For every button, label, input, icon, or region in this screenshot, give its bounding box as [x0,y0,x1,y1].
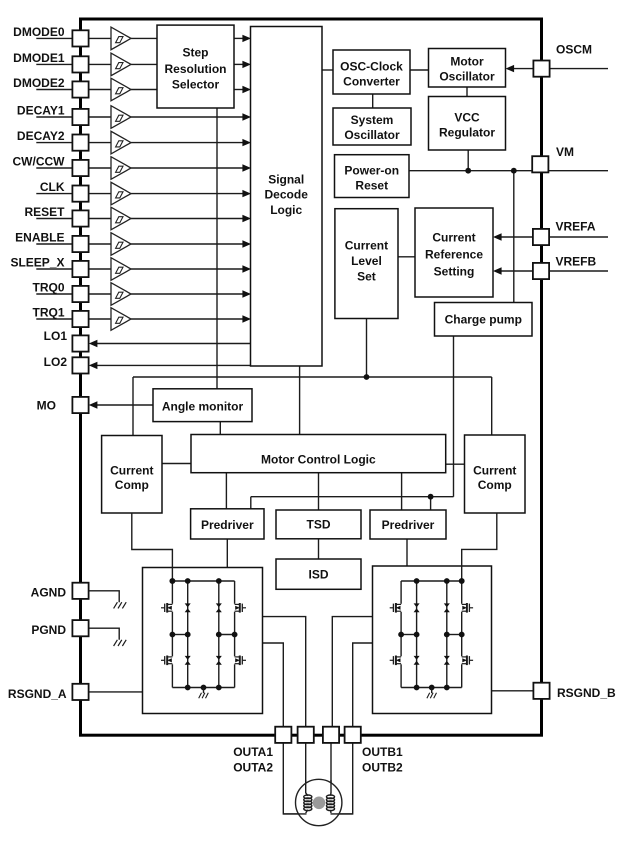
svg-text:Current: Current [432,230,475,244]
svg-text:RESET: RESET [24,205,65,219]
svg-text:Logic: Logic [270,203,302,217]
svg-text:DMODE1: DMODE1 [13,51,65,65]
svg-text:Motor: Motor [450,54,484,68]
svg-text:Signal: Signal [268,172,304,186]
svg-text:ENABLE: ENABLE [15,230,64,244]
svg-text:Current: Current [110,463,153,477]
svg-text:Current: Current [345,238,388,252]
svg-text:Decode: Decode [265,188,309,202]
svg-text:Setting: Setting [434,264,475,278]
svg-text:VCC: VCC [454,110,480,124]
svg-text:Charge pump: Charge pump [445,313,522,327]
svg-text:Current: Current [473,463,516,477]
svg-text:Motor Control Logic: Motor Control Logic [261,452,376,466]
svg-text:Converter: Converter [343,74,400,88]
svg-text:Resolution: Resolution [165,62,227,76]
svg-text:Level: Level [351,254,382,268]
svg-text:Set: Set [357,269,376,283]
svg-text:Regulator: Regulator [439,126,495,140]
svg-text:Comp: Comp [478,478,512,492]
svg-text:SLEEP_X: SLEEP_X [10,255,64,269]
svg-text:LO1: LO1 [44,329,68,343]
svg-text:DMODE2: DMODE2 [13,76,65,90]
svg-text:Angle monitor: Angle monitor [162,399,244,413]
svg-text:Reference: Reference [425,247,483,261]
svg-text:AGND: AGND [31,586,67,600]
svg-text:Oscillator: Oscillator [344,128,400,142]
svg-text:OUTB1: OUTB1 [362,745,403,759]
svg-text:ISD: ISD [308,567,328,581]
svg-text:Reset: Reset [355,179,388,193]
svg-text:OSC-Clock: OSC-Clock [340,59,403,73]
svg-text:VREFA: VREFA [556,219,596,233]
svg-text:VM: VM [556,145,574,159]
svg-text:Step: Step [182,46,208,60]
svg-text:CW/CCW: CW/CCW [13,154,66,168]
svg-text:Oscillator: Oscillator [439,69,495,83]
svg-text:MO: MO [37,399,56,413]
svg-text:Power-on: Power-on [344,163,399,177]
svg-text:RSGND_A: RSGND_A [8,687,67,701]
svg-text:OSCM: OSCM [556,42,592,56]
svg-text:Comp: Comp [115,478,149,492]
svg-text:Selector: Selector [172,77,220,91]
svg-text:TRQ0: TRQ0 [32,280,64,294]
svg-text:RSGND_B: RSGND_B [557,686,616,700]
svg-text:DMODE0: DMODE0 [13,25,65,39]
svg-text:TSD: TSD [307,518,331,532]
svg-text:Predriver: Predriver [201,518,254,532]
svg-text:Predriver: Predriver [382,518,435,532]
svg-text:OUTA1: OUTA1 [233,745,273,759]
svg-text:VREFB: VREFB [556,255,597,269]
svg-text:TRQ1: TRQ1 [32,305,64,319]
svg-text:OUTA2: OUTA2 [233,761,273,775]
svg-text:CLK: CLK [40,180,65,194]
svg-text:LO2: LO2 [44,355,68,369]
svg-text:System: System [351,113,394,127]
svg-text:OUTB2: OUTB2 [362,761,403,775]
svg-text:PGND: PGND [31,623,66,637]
svg-text:DECAY1: DECAY1 [17,103,65,117]
svg-text:DECAY2: DECAY2 [17,129,65,143]
